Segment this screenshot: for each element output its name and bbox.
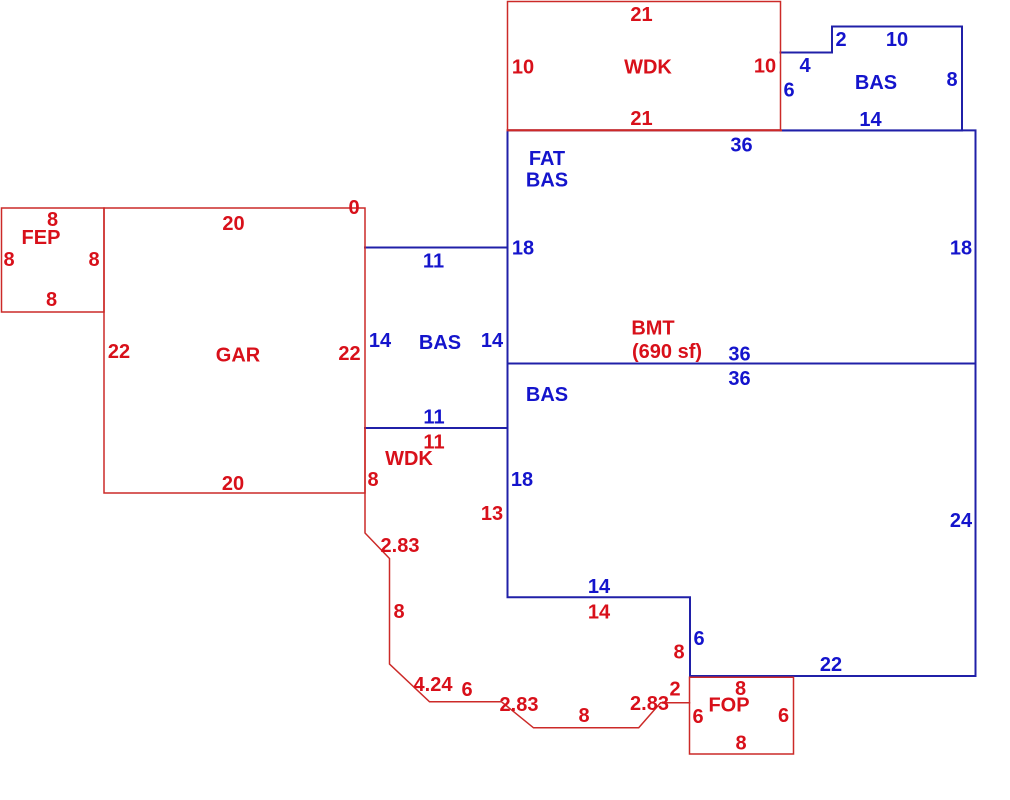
svg-text:6: 6 (693, 628, 704, 650)
svg-text:21: 21 (630, 108, 652, 130)
svg-text:14: 14 (369, 330, 392, 352)
svg-text:WDK: WDK (624, 57, 672, 79)
wall BAS bottom 14 (781, 130, 963, 132)
svg-text:24: 24 (950, 510, 973, 532)
room GAR outline (104, 208, 365, 493)
room FAT BAS / BAS main outline (508, 130, 976, 676)
svg-text:8: 8 (673, 642, 684, 664)
svg-text:8: 8 (3, 249, 14, 271)
room BAS middle top wall 11 (365, 247, 508, 249)
svg-text:(690 sf): (690 sf) (632, 341, 702, 363)
svg-text:18: 18 (950, 238, 972, 260)
svg-text:36: 36 (730, 135, 752, 157)
svg-text:WDK: WDK (385, 448, 433, 470)
svg-text:36: 36 (728, 368, 750, 390)
svg-text:11: 11 (423, 251, 444, 273)
svg-text:6: 6 (783, 80, 794, 102)
svg-text:GAR: GAR (216, 345, 261, 367)
svg-text:22: 22 (820, 654, 842, 676)
svg-text:14: 14 (588, 602, 611, 624)
svg-text:4.24: 4.24 (414, 674, 454, 696)
svg-text:6: 6 (778, 705, 789, 727)
svg-text:8: 8 (88, 249, 99, 271)
svg-text:6: 6 (692, 706, 703, 728)
svg-text:14: 14 (859, 109, 882, 131)
svg-text:6: 6 (461, 679, 472, 701)
svg-text:22: 22 (108, 341, 130, 363)
svg-text:0: 0 (348, 197, 359, 219)
svg-text:2: 2 (669, 679, 680, 701)
svg-text:18: 18 (512, 238, 534, 260)
svg-text:8: 8 (46, 289, 57, 311)
svg-text:FAT: FAT (529, 148, 565, 170)
svg-text:FEP: FEP (22, 227, 61, 249)
room FOP outline (690, 677, 794, 754)
svg-text:18: 18 (511, 469, 533, 491)
svg-text:BAS: BAS (526, 384, 568, 406)
svg-text:10: 10 (886, 29, 908, 51)
svg-text:13: 13 (481, 503, 503, 525)
svg-text:20: 20 (222, 213, 244, 235)
svg-text:20: 20 (222, 473, 244, 495)
wall divider BMT 36 (508, 363, 976, 365)
svg-text:BAS: BAS (855, 72, 897, 94)
svg-text:2.83: 2.83 (630, 693, 669, 715)
svg-text:10: 10 (754, 56, 776, 78)
svg-text:8: 8 (735, 678, 746, 700)
svg-text:11: 11 (423, 407, 444, 429)
svg-text:8: 8 (367, 469, 378, 491)
svg-text:2.83: 2.83 (500, 694, 539, 716)
svg-text:8: 8 (393, 601, 404, 623)
svg-text:8: 8 (578, 705, 589, 727)
svg-text:BAS: BAS (526, 170, 568, 192)
room FEP outline (2, 208, 105, 312)
room BAS top-right outline (781, 27, 963, 131)
svg-text:36: 36 (728, 344, 750, 366)
svg-text:10: 10 (512, 57, 534, 79)
svg-text:4: 4 (799, 55, 811, 77)
svg-text:14: 14 (588, 576, 611, 598)
deck WDK lower outline (365, 429, 690, 728)
wall WDK bottom red over blue (508, 129, 782, 131)
svg-text:2.83: 2.83 (381, 535, 420, 557)
svg-text:2: 2 (835, 29, 846, 51)
svg-text:8: 8 (946, 69, 957, 91)
room BAS middle bottom wall 11 (365, 427, 508, 429)
svg-text:14: 14 (481, 330, 504, 352)
room WDK top outline (508, 2, 781, 131)
svg-text:22: 22 (338, 343, 360, 365)
svg-text:BAS: BAS (419, 332, 461, 354)
svg-text:BMT: BMT (631, 318, 674, 340)
svg-text:8: 8 (735, 733, 746, 755)
svg-text:21: 21 (630, 4, 652, 26)
